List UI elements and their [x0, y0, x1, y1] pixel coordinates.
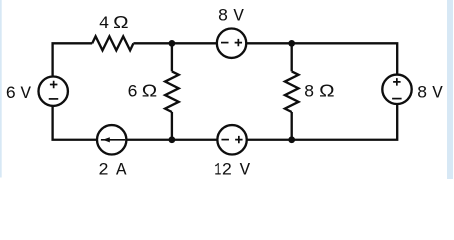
svg-text:Ω: Ω	[113, 13, 128, 32]
voltage source 8V top (circle)	[217, 29, 246, 58]
wire 8V right down to bottom-right corner, left to node D	[292, 104, 398, 140]
wire node C to 2A source	[126, 139, 171, 141]
wire 4ohm to node A	[133, 42, 172, 44]
svg-text:2: 2	[222, 161, 233, 179]
current source 2A (circle)	[97, 125, 126, 154]
wire 8ohm down to node D	[291, 112, 293, 140]
left blue border stripe	[0, 0, 2, 178]
wire 8V top to node B	[246, 42, 291, 44]
arrowhead of 2A current source	[103, 137, 110, 142]
node B junction dot	[288, 40, 295, 47]
voltage source 12V (circle)	[217, 125, 246, 154]
wire branch node B down to 8ohm	[291, 43, 293, 71]
resistor 8ohm	[285, 71, 299, 112]
svg-text:8: 8	[304, 82, 315, 102]
svg-text:Ω: Ω	[319, 82, 334, 101]
wire node A to 8V top source	[172, 42, 217, 44]
voltage source 6V (circle)	[39, 77, 68, 106]
svg-text:6: 6	[127, 82, 138, 102]
plus sign of 6V	[50, 81, 58, 89]
svg-text:8: 8	[218, 7, 229, 27]
svg-text:4: 4	[99, 14, 110, 34]
svg-text:V: V	[240, 161, 251, 179]
svg-text:A: A	[116, 160, 127, 179]
svg-text:V: V	[432, 84, 443, 104]
svg-text:6: 6	[5, 84, 16, 104]
wire 6ohm down to node C	[171, 112, 173, 140]
svg-text:1: 1	[214, 162, 221, 179]
right blue border stripe	[447, 0, 453, 179]
svg-text:8: 8	[417, 84, 428, 104]
minus sign of 8V right	[392, 98, 402, 100]
wire left-top: 6V source up to top-left corner, right to 4ohm	[53, 43, 93, 76]
voltage source 8V right (circle)	[382, 75, 411, 104]
resistor 4ohm	[92, 36, 133, 50]
wire branch node A down to 6ohm	[171, 43, 173, 71]
resistor 6ohm	[165, 71, 179, 112]
svg-text:V: V	[21, 84, 32, 104]
plus sign of 12V	[235, 136, 242, 143]
node C junction dot	[169, 136, 176, 143]
minus sign of 8V top	[221, 42, 229, 44]
wire node B to top-right corner down to 8V right	[292, 43, 398, 74]
node D junction dot	[288, 136, 295, 143]
svg-text:Ω: Ω	[142, 82, 157, 101]
svg-text:V: V	[233, 7, 244, 27]
wire node D to 12V source	[247, 139, 292, 141]
minus sign of 6V	[49, 98, 59, 100]
svg-text:2: 2	[98, 160, 109, 179]
arrow shaft of 2A current source	[101, 139, 125, 141]
node A junction dot	[169, 40, 176, 47]
wire 12V to node C	[172, 139, 217, 141]
plus sign of 8V right	[393, 78, 401, 86]
wire 2A to bottom-left corner, up to 6V source	[53, 106, 97, 140]
plus sign of 8V top	[235, 39, 242, 46]
minus sign of 12V	[221, 139, 229, 141]
